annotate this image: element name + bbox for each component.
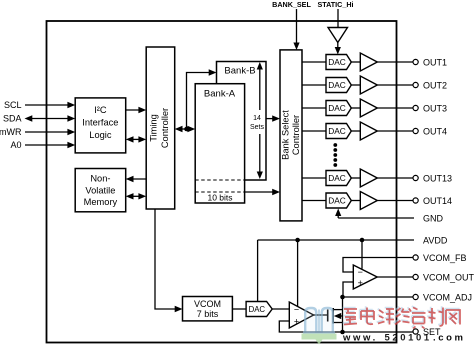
amplifier A1 (360, 53, 377, 71)
pin OUT3 terminal (413, 105, 418, 110)
wire 10-bits to Bank Select Controller (245, 189, 280, 195)
svg-text:Volatile: Volatile (85, 185, 115, 195)
wire op-amp1 feedback from SET line (279, 321, 342, 332)
wire BSC to DAC13 (302, 177, 326, 179)
svg-text:+: + (294, 317, 299, 327)
wire amp14 to OUT14 pad (377, 200, 413, 202)
svg-text:10 bits: 10 bits (207, 193, 232, 203)
wire buffer to DAC1 (335, 43, 341, 55)
block VCOM 7 bits register (183, 297, 233, 321)
wire op-amp2 noninverting input to VCOM_ADJ node (343, 282, 353, 297)
svg-text:OUT1: OUT1 (423, 57, 447, 67)
wire DAC4 to amp4 (351, 130, 360, 132)
svg-text:Controller: Controller (160, 108, 170, 148)
wire op-amp1 output to MOSFET gate (314, 314, 327, 316)
op-amp U14 (VCOM buffer) (353, 265, 377, 289)
wire dashed 10-bit divider in Bank-A (195, 191, 244, 193)
svg-text:DAC: DAC (328, 126, 346, 136)
wire SCL to I2C (25, 102, 75, 108)
wire VCOM DAC to op-amp1 inverting input (272, 308, 289, 310)
wire Timing NVM bidirectional (126, 193, 147, 199)
svg-text:Interface: Interface (82, 118, 118, 128)
buffer U1 (inverted triangle) (328, 28, 348, 43)
wire DAC13 to amp13 (351, 177, 360, 179)
svg-text:DAC: DAC (328, 173, 346, 183)
DAC U11 (OUT14) (326, 193, 351, 208)
svg-text:BANK_SEL: BANK_SEL (272, 0, 311, 9)
svg-text:7 bits: 7 bits (197, 309, 219, 319)
svg-text:VCOM_OUT: VCOM_OUT (423, 272, 475, 282)
wire STATIC_Hi to buffer (337, 9, 339, 27)
junction node AVDD to op-amp2 (360, 238, 365, 243)
wire SET line (343, 331, 414, 333)
svg-text:14: 14 (253, 115, 261, 122)
block U2 I2C Interface Logic (75, 98, 126, 153)
DAC U9 (OUT4) (326, 124, 351, 139)
svg-text:Bank Select: Bank Select (281, 110, 291, 160)
wire Timing to Bank-A bidirectional (175, 126, 196, 132)
wire DAC1 to amp1 (351, 61, 360, 63)
amplifier A13 (360, 169, 377, 187)
pin SET terminal (413, 329, 418, 334)
DAC U6 (OUT1) (326, 55, 351, 70)
wire Timing to VCOM register (155, 209, 183, 312)
svg-text:OUT4: OUT4 (423, 126, 447, 136)
svg-text:I²C: I²C (94, 105, 107, 115)
wire VCOM_FB to op-amp2 inverting input (343, 258, 414, 273)
svg-text:VCOM_ADJ: VCOM_ADJ (423, 292, 472, 302)
wire A0 to I2C (25, 142, 75, 148)
block U3 Non-Volatile Memory (75, 169, 126, 212)
pin OUT14 terminal (413, 198, 418, 203)
svg-text:OUT2: OUT2 (423, 80, 447, 90)
wire dashed Bank-B bottom through Bank-A (195, 179, 244, 181)
watermark book logo (303, 308, 335, 333)
watermark url (342, 333, 466, 344)
junction node on Timing-BankA wire (184, 127, 189, 132)
wire junction up to Bank-B (187, 69, 217, 129)
svg-text:Controller: Controller (291, 115, 301, 155)
svg-text:+: + (358, 278, 363, 288)
wire DAC3 to amp3 (351, 107, 360, 109)
wire SDA bidirectional to I2C (25, 115, 76, 121)
wire Timing to NVM (126, 176, 147, 182)
amplifier A3 (360, 99, 377, 117)
pin VCOM_ADJ terminal (413, 294, 418, 299)
wire MOSFET drain-source rail (342, 297, 344, 332)
svg-text:DAC: DAC (328, 57, 346, 67)
block Bank-A register (195, 84, 244, 203)
wire op-amp2 output to VCOM_OUT (377, 276, 413, 278)
svg-text:DAC: DAC (328, 196, 346, 206)
wire BANK_SEL to Bank Select Controller (293, 9, 299, 50)
svg-text:−: − (358, 267, 363, 277)
block U4 Timing Controller (146, 47, 175, 209)
svg-text:GND: GND (423, 213, 444, 223)
DAC U12 (VCOM) (246, 302, 272, 317)
outer chip boundary box (47, 21, 397, 343)
svg-text:OUT13: OUT13 (423, 173, 452, 183)
amplifier A4 (360, 122, 377, 140)
wire AVDD down to op-amp2 (361, 240, 363, 269)
wire BSC to DAC14 (302, 200, 326, 202)
pin OUT2 terminal (413, 82, 418, 87)
svg-text:SDA: SDA (3, 114, 22, 124)
wire VCOM_ADJ line (343, 296, 415, 298)
wire amp3 to OUT3 pad (377, 107, 413, 109)
svg-text:VCOM: VCOM (194, 299, 221, 309)
svg-text:520101: 520101 (385, 333, 432, 344)
junction node drain to VCOM_ADJ (340, 295, 345, 300)
pin OUT1 terminal (413, 59, 418, 64)
wire amp4 to OUT4 pad (377, 130, 413, 132)
pin VCOM_OUT terminal (413, 274, 418, 279)
op-amp U13 (VCOM error amp) (289, 302, 313, 328)
wire DAC2 to amp2 (351, 84, 360, 86)
wire VCOM register to VCOM DAC (232, 308, 246, 310)
pin OUT4 terminal (413, 128, 418, 133)
block Bank-B register (217, 62, 267, 181)
DAC U8 (OUT3) (326, 101, 351, 116)
junction node source to SET (340, 330, 345, 335)
transistor Q1 (MOSFET) (328, 308, 343, 324)
svg-text:Non-: Non- (90, 174, 110, 184)
amplifier A2 (360, 76, 377, 94)
wire amp2 to OUT2 pad (377, 84, 413, 86)
wire BSC to DAC3 (302, 107, 326, 109)
svg-text:STATIC_Hi: STATIC_Hi (317, 0, 353, 9)
svg-text:DAC: DAC (328, 103, 346, 113)
svg-text:.com: .com (433, 333, 466, 344)
svg-text:Logic: Logic (89, 130, 112, 140)
wire Bank-B to Bank Select Controller (266, 115, 280, 121)
svg-text:DAC: DAC (328, 80, 346, 90)
ellipsis continuation dots (333, 143, 337, 167)
wire GND rail (335, 209, 414, 219)
svg-text:VCOM_FB: VCOM_FB (423, 253, 467, 263)
svg-text:mWR: mWR (0, 127, 22, 137)
watermark green ribbon (302, 334, 337, 345)
wire AVDD down to op-amp1 (297, 240, 299, 307)
svg-text:AVDD: AVDD (423, 235, 448, 245)
measure arrow 14 Sets inside Bank-B (250, 62, 265, 179)
wire amp13 to OUT13 pad (377, 177, 413, 179)
wire AVDD rail (258, 239, 414, 241)
svg-text:SCL: SCL (4, 100, 22, 110)
wire BSC to DAC4 (302, 130, 326, 132)
svg-text:Bank-A: Bank-A (204, 88, 236, 99)
DAC U7 (OUT2) (326, 78, 351, 93)
svg-text:OUT3: OUT3 (423, 103, 447, 113)
pin VCOM_FB terminal (413, 255, 418, 260)
DAC U10 (OUT13) (326, 171, 351, 186)
svg-text:A0: A0 (10, 140, 21, 150)
amplifier A14 (360, 192, 377, 210)
svg-text:DAC: DAC (249, 305, 266, 314)
wire mWR to I2C (25, 129, 75, 135)
svg-text:−: − (294, 305, 299, 315)
pin OUT13 terminal (413, 175, 418, 180)
block U5 Bank Select Controller (280, 50, 302, 221)
svg-text:Sets: Sets (250, 124, 265, 131)
wire AVDD down to VCOM DAC (257, 240, 259, 302)
wire amp1 to OUT1 pad (377, 61, 413, 63)
junction node AVDD to op-amp1 (295, 238, 300, 243)
wire BSC to DAC2 (302, 84, 326, 86)
svg-text:Timing: Timing (149, 114, 159, 142)
svg-text:Bank-B: Bank-B (224, 66, 255, 77)
wire BSC to DAC1 (302, 61, 326, 63)
svg-text:Memory: Memory (84, 197, 118, 207)
wire I2C to Timing (data) (126, 107, 147, 113)
wire DAC14 to amp14 (351, 200, 360, 202)
svg-text:www.: www. (342, 333, 378, 344)
wire I2C to Timing bidirectional (126, 136, 147, 142)
svg-text:OUT14: OUT14 (423, 196, 452, 206)
